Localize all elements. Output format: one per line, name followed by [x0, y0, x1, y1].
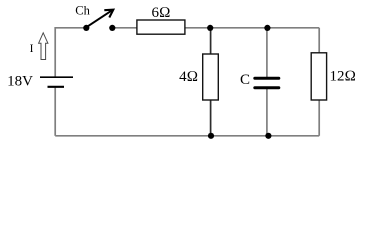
wire right vertical below 12ohm	[318, 100, 320, 136]
wire capacitor branch upper	[266, 28, 268, 77]
battery V1 long plate	[40, 76, 73, 78]
wire 4ohm branch upper	[210, 28, 212, 54]
switch Ch contact dot left	[83, 25, 89, 31]
resistor 12ohm body	[311, 53, 326, 100]
wire right vertical above 12ohm	[318, 28, 320, 53]
wire top-left horizontal	[55, 27, 86, 29]
current arrow I (hollow)	[39, 33, 48, 60]
wire bottom horizontal	[55, 135, 319, 137]
svg-text:C: C	[240, 72, 250, 88]
svg-text:I: I	[30, 43, 34, 55]
wire 6ohm resistor to top-right corner	[185, 27, 319, 29]
switch Ch arrowhead	[104, 10, 113, 18]
junction node top A	[207, 25, 213, 31]
svg-text:18V: 18V	[7, 74, 33, 90]
svg-text:6Ω: 6Ω	[151, 5, 170, 21]
junction node top B	[264, 25, 270, 31]
junction node bottom B	[265, 133, 271, 139]
wire switch to 6ohm resistor	[112, 27, 137, 29]
switch Ch contact dot right	[109, 25, 115, 31]
svg-text:Ch: Ch	[75, 4, 90, 18]
capacitor C top plate	[255, 77, 279, 80]
battery V1 short plate	[48, 86, 65, 88]
wire left vertical above battery	[54, 27, 56, 77]
wire capacitor branch lower	[266, 89, 268, 136]
resistor 4ohm body	[203, 54, 219, 100]
svg-text:4Ω: 4Ω	[179, 69, 198, 85]
wire left vertical below battery	[54, 87, 56, 136]
junction node bottom A	[208, 133, 214, 139]
svg-text:12Ω: 12Ω	[330, 69, 357, 85]
wire 4ohm branch lower	[210, 100, 212, 136]
switch Ch arm	[87, 10, 112, 27]
resistor 6ohm body	[137, 20, 185, 34]
capacitor C bottom plate	[255, 86, 279, 89]
